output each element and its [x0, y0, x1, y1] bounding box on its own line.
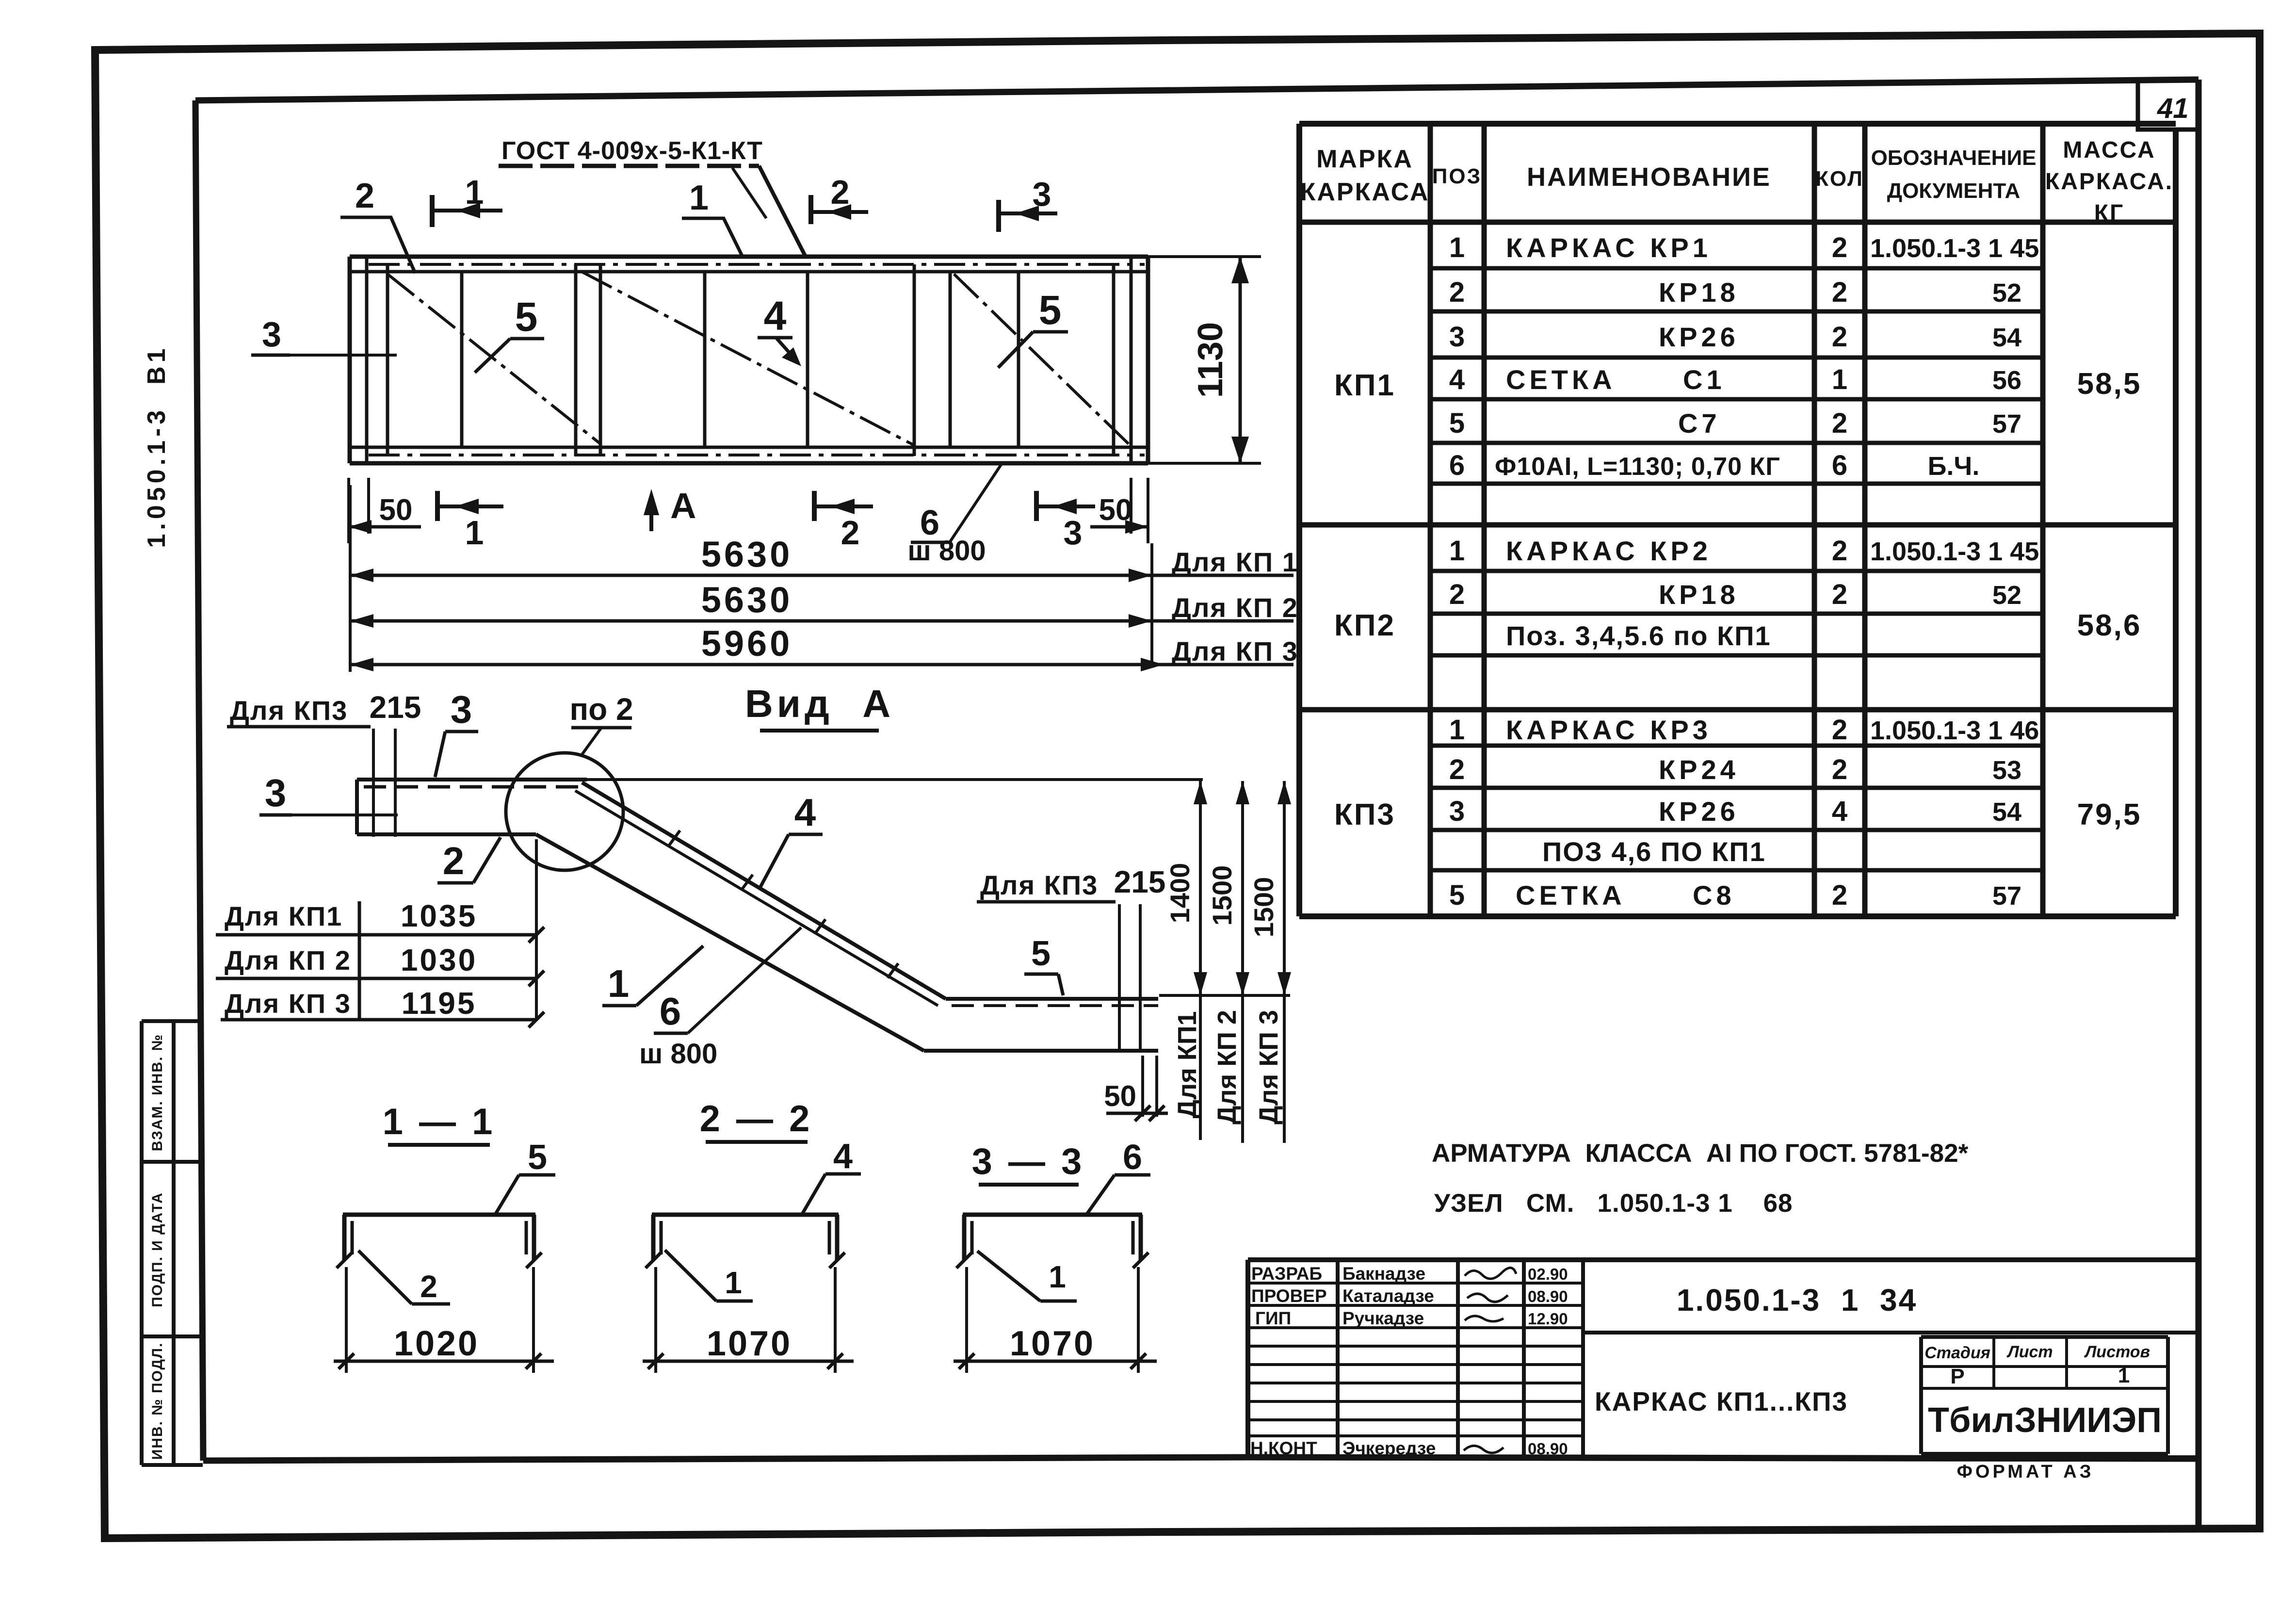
svg-text:КАРКАС КР1: КАРКАС КР1 [1506, 232, 1712, 263]
svg-text:Для КП3: Для КП3 [230, 695, 348, 726]
svg-text:5: 5 [1449, 879, 1465, 911]
svg-text:58,6: 58,6 [2077, 609, 2142, 642]
svg-text:5630: 5630 [701, 534, 793, 574]
svg-text:Для КП3: Для КП3 [980, 870, 1098, 900]
page number box [2138, 82, 2199, 130]
svg-text:Листов: Листов [2084, 1343, 2150, 1361]
dim 1130 vertical [1148, 257, 1261, 463]
element left bottom chord [357, 832, 536, 836]
dla kp3 215 left [227, 690, 421, 837]
svg-text:5: 5 [1449, 407, 1465, 439]
svg-text:5: 5 [1039, 287, 1062, 333]
svg-text:1.050.1-3 1 46: 1.050.1-3 1 46 [1870, 716, 2039, 745]
svg-text:КР18: КР18 [1659, 277, 1739, 308]
svg-text:КАРКАСА.: КАРКАСА. [2045, 169, 2173, 195]
svg-text:1: 1 [1049, 1259, 1066, 1294]
dim 1020 [346, 1267, 534, 1373]
svg-text:НАИМЕНОВАНИЕ: НАИМЕНОВАНИЕ [1527, 163, 1771, 192]
svg-text:РАЗРАБ: РАЗРАБ [1251, 1264, 1322, 1284]
svg-text:56: 56 [1992, 366, 2021, 395]
label 6 bottom leader [907, 465, 1001, 567]
svg-text:1.050.1-3 1 45: 1.050.1-3 1 45 [1870, 234, 2039, 263]
svg-text:КР24: КР24 [1659, 754, 1739, 785]
svg-text:ИНВ. № ПОДЛ.: ИНВ. № ПОДЛ. [149, 1342, 165, 1460]
svg-text:215: 215 [1114, 864, 1166, 899]
svg-text:ПРОВЕР: ПРОВЕР [1251, 1286, 1327, 1306]
inner drawing frame bottom [203, 1457, 2199, 1461]
svg-text:Стадия: Стадия [1924, 1344, 1990, 1362]
svg-text:53: 53 [1992, 756, 2021, 785]
svg-text:Для КП 3: Для КП 3 [1254, 1010, 1283, 1124]
svg-text:КР26: КР26 [1659, 322, 1739, 352]
poz numbers [1449, 232, 1465, 911]
svg-text:КП2: КП2 [1334, 609, 1395, 642]
margin stamp strip [142, 1021, 203, 1465]
svg-text:КГ: КГ [2094, 200, 2125, 226]
svg-text:1: 1 [689, 179, 709, 217]
inner drawing frame right [2196, 80, 2202, 1529]
svg-text:2: 2 [355, 177, 374, 215]
title block outline [1248, 1260, 2198, 1458]
svg-text:Для КП 3: Для КП 3 [1172, 636, 1298, 667]
svg-text:С1: С1 [1683, 364, 1726, 395]
dim 50 left [349, 478, 421, 543]
massa cells [2077, 367, 2142, 831]
svg-text:ш 800: ш 800 [639, 1038, 717, 1070]
svg-text:08.90: 08.90 [1528, 1287, 1568, 1305]
dla kp3 215 right [977, 864, 1165, 1051]
svg-text:Лист: Лист [2006, 1343, 2053, 1361]
svg-text:С8: С8 [1693, 880, 1735, 911]
minitable 1035 1030 1195 [216, 839, 544, 1027]
svg-text:2: 2 [831, 173, 850, 211]
svg-text:ПОЗ 4,6 ПО КП1: ПОЗ 4,6 ПО КП1 [1542, 836, 1766, 867]
gost leader [759, 166, 805, 256]
section cut 3 bottom [1036, 491, 1095, 552]
svg-text:Ручкадзе: Ручкадзе [1342, 1308, 1424, 1328]
svg-text:4: 4 [1449, 364, 1465, 395]
signature squiggles [1464, 1268, 1516, 1453]
marka cells [1334, 369, 1395, 831]
svg-text:08.90: 08.90 [1528, 1440, 1568, 1458]
cage cross bars [388, 264, 1114, 456]
dim 1070 [967, 1267, 1138, 1373]
stirrup C7 [343, 1215, 535, 1260]
svg-text:41: 41 [2157, 93, 2189, 124]
svg-text:1130: 1130 [1191, 322, 1230, 398]
svg-text:2: 2 [1832, 754, 1847, 785]
section 1-1 [334, 1101, 555, 1373]
svg-text:5: 5 [528, 1138, 547, 1177]
svg-text:Б.Ч.: Б.Ч. [1928, 452, 1980, 481]
section cut 2 bottom [814, 491, 873, 552]
dim reference line right [1159, 994, 1290, 997]
svg-text:Для КП 2: Для КП 2 [225, 945, 351, 976]
svg-text:СЕТКА: СЕТКА [1506, 364, 1616, 395]
svg-text:ш 800: ш 800 [907, 535, 986, 567]
kol cells [1832, 232, 1847, 911]
section 2-2 [643, 1098, 861, 1373]
svg-text:6: 6 [660, 990, 681, 1033]
cage plan outline [350, 257, 1148, 463]
svg-text:2: 2 [443, 839, 465, 882]
svg-text:1035: 1035 [401, 898, 477, 933]
svg-text:по 2: по 2 [569, 692, 633, 727]
svg-text:52: 52 [1992, 581, 2021, 610]
svg-text:Для КП 3: Для КП 3 [225, 988, 351, 1019]
svg-text:02.90: 02.90 [1528, 1265, 1568, 1283]
svg-text:Для КП 2: Для КП 2 [1172, 592, 1298, 623]
svg-text:Эчкередзе: Эчкередзе [1342, 1438, 1436, 1458]
svg-text:2: 2 [1832, 321, 1847, 353]
svg-text:215: 215 [370, 690, 421, 725]
naimenovanie cells [1495, 232, 1780, 911]
svg-text:1070: 1070 [1010, 1324, 1095, 1363]
svg-text:2: 2 [1832, 232, 1847, 263]
svg-text:3: 3 [451, 688, 472, 731]
dim 1070 [656, 1267, 835, 1373]
svg-text:2: 2 [1832, 277, 1847, 308]
inner drawing frame top [195, 80, 2199, 100]
element top chord [357, 778, 1203, 781]
svg-text:1020: 1020 [394, 1324, 479, 1363]
svg-text:52: 52 [1992, 278, 2021, 308]
longitudinal bar dash-dot top [369, 263, 1145, 266]
svg-text:2: 2 [1449, 754, 1465, 785]
svg-text:1: 1 [1832, 364, 1847, 395]
svg-text:54: 54 [1992, 323, 2021, 352]
svg-text:ПОЗ: ПОЗ [1432, 164, 1482, 188]
section cut 1 top [432, 173, 502, 227]
flight lower chord [536, 834, 924, 1051]
svg-text:2 — 2: 2 — 2 [700, 1098, 813, 1139]
svg-text:2: 2 [1832, 579, 1847, 610]
svg-text:2: 2 [1832, 879, 1847, 911]
svg-text:1.050.1-3 1 45: 1.050.1-3 1 45 [1870, 537, 2039, 566]
svg-text:Вид А: Вид А [745, 682, 894, 725]
svg-text:1195: 1195 [402, 986, 477, 1021]
svg-text:КАРКАСА: КАРКАСА [1300, 178, 1430, 206]
svg-text:2: 2 [1449, 579, 1465, 610]
svg-text:МАССА: МАССА [2063, 137, 2155, 163]
svg-text:5960: 5960 [701, 623, 793, 664]
svg-text:А: А [670, 486, 696, 526]
svg-text:1: 1 [608, 962, 630, 1005]
svg-text:3: 3 [1449, 796, 1465, 827]
svg-text:1: 1 [725, 1265, 742, 1300]
inner drawing frame left [195, 100, 203, 1461]
dim 50 right [1090, 478, 1148, 543]
svg-text:КП3: КП3 [1334, 798, 1395, 831]
stirrup C8 [963, 1215, 1142, 1260]
svg-text:2: 2 [1449, 277, 1465, 308]
svg-text:ВЗАМ. ИНВ. №: ВЗАМ. ИНВ. № [149, 1034, 165, 1151]
diagonal wire 1 [388, 274, 600, 444]
svg-text:57: 57 [1992, 881, 2021, 911]
svg-text:УЗЕЛ СМ. 1.050.1-3 1 68: УЗЕЛ СМ. 1.050.1-3 1 68 [1434, 1189, 1793, 1218]
svg-text:1070: 1070 [707, 1324, 792, 1363]
svg-text:Бакнадзе: Бакнадзе [1342, 1264, 1425, 1284]
svg-text:С7: С7 [1678, 408, 1721, 439]
svg-text:ФОРМАТ АЗ: ФОРМАТ АЗ [1956, 1462, 2094, 1482]
svg-text:1: 1 [2118, 1364, 2130, 1387]
svg-text:ТбилЗНИИЭП: ТбилЗНИИЭП [1928, 1401, 2162, 1440]
section cut 2 top [811, 173, 868, 224]
element left end [355, 780, 359, 834]
svg-text:1: 1 [465, 514, 484, 552]
svg-text:3: 3 [265, 771, 287, 814]
svg-text:КАРКАС КР2: КАРКАС КР2 [1506, 536, 1712, 566]
svg-text:2: 2 [1832, 407, 1847, 439]
svg-text:ДОКУМЕНТА: ДОКУМЕНТА [1887, 179, 2021, 203]
svg-text:1500: 1500 [1207, 865, 1237, 926]
svg-text:2: 2 [841, 514, 860, 552]
svg-text:1.050.1-3 1 34: 1.050.1-3 1 34 [1677, 1283, 1917, 1318]
svg-text:12.90: 12.90 [1528, 1310, 1568, 1328]
svg-text:Н.КОНТ: Н.КОНТ [1250, 1438, 1317, 1458]
oboznachenie cells [1870, 234, 2039, 911]
flight upper pair [582, 782, 946, 999]
dim 50 landing [1104, 1056, 1168, 1121]
svg-text:Для КП 2: Для КП 2 [1213, 1010, 1242, 1124]
stirrup C1 [652, 1215, 839, 1260]
svg-text:1.050.1-3 В1: 1.050.1-3 В1 [143, 344, 171, 548]
svg-text:Каталадзе: Каталадзе [1342, 1286, 1434, 1306]
detail circle [506, 753, 623, 870]
svg-text:1: 1 [1449, 535, 1465, 567]
svg-text:Для КП1: Для КП1 [1173, 1011, 1202, 1118]
svg-text:МАРКА: МАРКА [1316, 145, 1413, 173]
svg-text:КР18: КР18 [1659, 579, 1739, 610]
svg-text:5630: 5630 [701, 580, 793, 620]
view arrow A [644, 486, 696, 531]
svg-text:ПОДП. И ДАТА: ПОДП. И ДАТА [149, 1192, 165, 1307]
svg-text:4: 4 [764, 293, 787, 339]
svg-text:КАРКАС КР3: КАРКАС КР3 [1506, 715, 1712, 745]
svg-text:5: 5 [1031, 934, 1051, 973]
section cut 3 top [999, 175, 1057, 232]
title block verticals [1338, 1260, 1583, 1458]
svg-text:1: 1 [1449, 714, 1465, 746]
svg-text:57: 57 [1992, 409, 2021, 439]
svg-text:Р: Р [1950, 1365, 1964, 1388]
svg-text:Поз. 3,4,5.6 по КП1: Поз. 3,4,5.6 по КП1 [1506, 620, 1771, 651]
svg-text:ОБОЗНАЧЕНИЕ: ОБОЗНАЧЕНИЕ [1871, 146, 2037, 170]
svg-text:СЕТКА: СЕТКА [1516, 880, 1626, 911]
rotated dla kp labels [1173, 1010, 1283, 1124]
svg-text:2: 2 [1832, 535, 1847, 567]
svg-text:6: 6 [1123, 1138, 1142, 1177]
svg-text:2: 2 [420, 1269, 437, 1304]
svg-text:3: 3 [1449, 321, 1465, 353]
svg-text:КАРКАС КП1...КП3: КАРКАС КП1...КП3 [1595, 1386, 1848, 1416]
table header [1300, 137, 2174, 226]
svg-text:58,5: 58,5 [2077, 367, 2142, 401]
svg-text:1 — 1: 1 — 1 [383, 1101, 496, 1142]
svg-text:Для КП 1: Для КП 1 [1172, 547, 1298, 577]
svg-text:ГИП: ГИП [1255, 1308, 1291, 1328]
svg-text:4: 4 [1832, 796, 1847, 827]
svg-text:АРМАТУРА КЛАССА АI ПО ГОСТ.: АРМАТУРА КЛАССА АI ПО ГОСТ. 5781-82* [1432, 1139, 1969, 1168]
svg-text:3 — 3: 3 — 3 [972, 1141, 1085, 1182]
svg-text:1030: 1030 [401, 943, 477, 977]
overall dims 5630 5630 5960 [350, 485, 1298, 672]
vertical dims 1400 1500 1500 [1164, 781, 1291, 1143]
bottom landing bottom chord [924, 1049, 1158, 1053]
signature rows [1248, 1283, 1583, 1436]
svg-text:50: 50 [379, 493, 413, 527]
svg-text:ГОСТ 4-009х-5-К1-КТ: ГОСТ 4-009х-5-К1-КТ [501, 137, 763, 165]
svg-text:2: 2 [1832, 714, 1847, 746]
signature column texts [1250, 1264, 1568, 1458]
svg-text:6: 6 [1449, 450, 1465, 481]
longitudinal bar dash-dot bottom [369, 454, 1145, 456]
doc number divider [1583, 1331, 2198, 1334]
svg-text:6: 6 [1832, 450, 1847, 481]
stage grid [1921, 1337, 2168, 1454]
diagonal wire 3 [954, 274, 1130, 445]
svg-text:54: 54 [1992, 797, 2021, 827]
spec table grid [1299, 124, 2176, 916]
svg-text:50: 50 [1104, 1080, 1136, 1112]
svg-text:КП1: КП1 [1334, 369, 1395, 402]
svg-text:1500: 1500 [1248, 877, 1279, 938]
svg-text:1: 1 [1449, 232, 1465, 263]
bottom landing top chord [946, 997, 1158, 1001]
svg-text:5: 5 [515, 294, 538, 340]
svg-text:3: 3 [262, 315, 281, 354]
svg-text:3: 3 [1064, 514, 1083, 552]
svg-text:КОЛ: КОЛ [1815, 167, 1864, 191]
svg-text:КР26: КР26 [1659, 796, 1739, 827]
diagonal wire 2 [582, 272, 914, 445]
svg-text:4: 4 [833, 1137, 853, 1176]
svg-text:1400: 1400 [1164, 863, 1195, 924]
section cut 1 bottom [437, 491, 503, 552]
flight stirrup ticks [669, 830, 898, 978]
svg-text:4: 4 [794, 791, 816, 834]
svg-text:Ф10АI, L=1130; 0,70 КГ: Ф10АI, L=1130; 0,70 КГ [1495, 453, 1780, 481]
section 3-3 [954, 1138, 1157, 1373]
svg-text:Для КП1: Для КП1 [225, 901, 342, 931]
svg-text:79,5: 79,5 [2077, 798, 2142, 831]
